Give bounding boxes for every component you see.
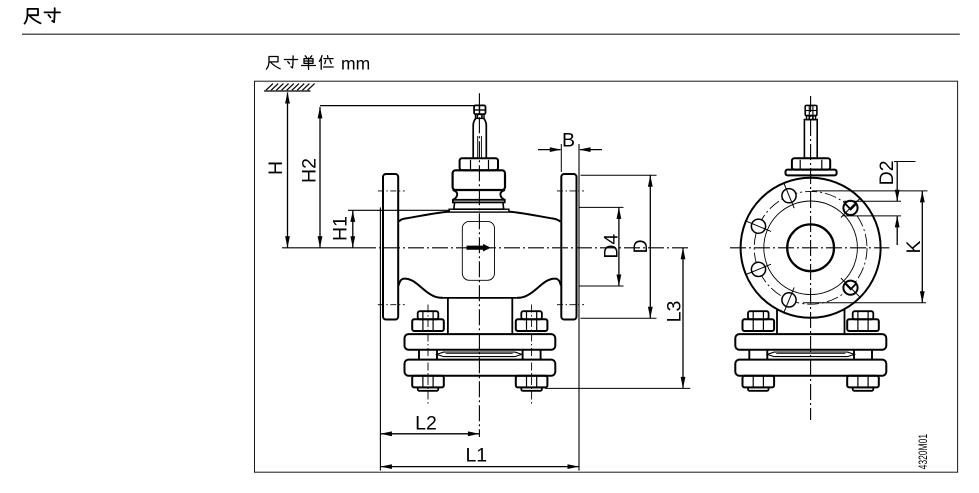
side view left bolt: [743, 311, 775, 391]
svg-text:H2: H2: [298, 158, 320, 183]
dimension L3 (centerline to bottom): [545, 248, 690, 389]
bore circle: [787, 224, 834, 271]
side view vertical centerline: [810, 96, 812, 420]
side view hex coupling: [792, 158, 830, 169]
svg-text:H1: H1: [329, 216, 351, 241]
gasket: [437, 352, 522, 357]
tapped hole D2 (45 deg): [841, 198, 860, 217]
dimension L1 (face to face): [380, 444, 579, 469]
side view gasket: [767, 352, 854, 357]
bonnet waist and flare profile: [453, 190, 505, 200]
dimension H2 (stem top to centerline): [298, 106, 475, 248]
side view lower plate: [735, 360, 886, 376]
bolt hole (112.5 deg): [782, 183, 796, 208]
front view vertical centerline: [478, 93, 480, 437]
left flange raised face line: [379, 207, 381, 470]
svg-text:D4: D4: [601, 234, 623, 259]
stem collar: [476, 114, 485, 118]
bottom flange left bolt: [412, 305, 444, 406]
front view horizontal centerline: [282, 247, 360, 249]
side view stem shaft: [804, 120, 817, 159]
bonnet top cylinder: [453, 170, 505, 190]
bottom flange lower plate: [405, 360, 556, 376]
page title 尺寸 (Dimensions): [25, 8, 61, 23]
svg-text:4320M01: 4320M01: [918, 434, 930, 470]
bonnet bottom plate: [449, 209, 509, 212]
front view left flange: [383, 174, 398, 320]
flange outer circle: [741, 178, 881, 318]
title underline rule: [22, 33, 960, 35]
valve stem shaft: [473, 118, 486, 158]
side view horizontal centerline: [730, 247, 889, 249]
side view stem nut: [805, 105, 817, 115]
svg-text:D2: D2: [876, 160, 898, 185]
bottom neck walls: [447, 298, 449, 334]
front view right flange: [561, 174, 576, 320]
hatched fixed-reference symbol: [264, 84, 315, 91]
side view right bolt: [847, 311, 879, 391]
subtitle 尺寸单位 mm (dimensions in mm): [266, 54, 370, 74]
bolt hole (157.5 deg): [746, 219, 771, 233]
stem hex coupling nut: [460, 158, 498, 170]
dimension D (flange diameter): [581, 175, 657, 318]
dimension D2 (tapped hole diameter): [844, 160, 916, 245]
bolt hole (247.5 deg): [782, 287, 796, 312]
bonnet flare bar: [453, 200, 505, 203]
right flange raised face line: [578, 144, 580, 471]
side view upper plate: [735, 334, 886, 350]
valve body outline: [399, 212, 561, 298]
flange bolt hole centermarks: [378, 191, 584, 305]
bottom flange right bolt: [516, 305, 548, 406]
svg-text:L1: L1: [465, 444, 487, 466]
side view bonnet base plate: [786, 170, 837, 176]
bolt hole (202.5 deg): [746, 262, 771, 276]
dimension D4 (port diameter): [580, 207, 624, 286]
svg-text:L2: L2: [415, 412, 437, 434]
svg-text:B: B: [562, 130, 575, 152]
svg-text:mm: mm: [341, 54, 370, 74]
dimension L2 (face to centerline): [380, 412, 479, 436]
dimension B (flange thickness): [538, 130, 602, 172]
flow direction arrow: [467, 244, 491, 252]
side view stem collar: [807, 116, 816, 120]
bottom flange upper plate: [405, 334, 556, 350]
bolt circle (dash-dot): [754, 191, 867, 304]
tapped hole D2 (315 deg): [841, 278, 860, 297]
flow window: [462, 221, 494, 280]
svg-text:H: H: [265, 161, 287, 175]
dimension K (bolt circle): [803, 191, 928, 303]
svg-text:K: K: [903, 240, 925, 253]
stem top nut: [474, 105, 485, 114]
dimension H (hatch line to centerline): [265, 92, 290, 248]
bonnet ring box: [454, 202, 504, 209]
svg-text:D: D: [630, 239, 652, 253]
drawing frame border: [255, 81, 958, 472]
side view bottom neck walls: [776, 310, 778, 335]
dimension H1 (bonnet flange to centerline): [329, 210, 450, 248]
svg-text:L3: L3: [663, 301, 685, 323]
raised face circle: [764, 201, 858, 295]
